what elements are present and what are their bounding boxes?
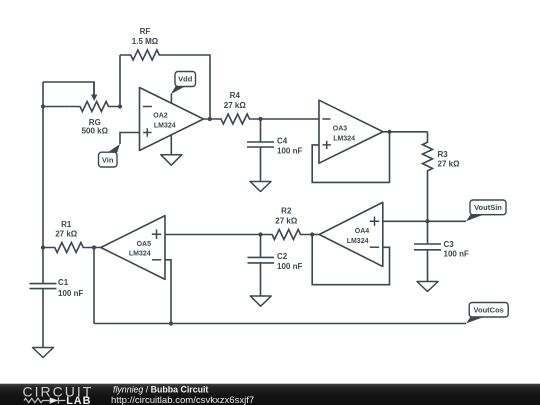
svg-text:Vin: Vin [102, 155, 114, 164]
svg-text:OA2: OA2 [153, 112, 168, 119]
svg-text:LM324: LM324 [154, 122, 176, 129]
svg-text:OA4: OA4 [355, 228, 370, 235]
svg-text:RF: RF [140, 27, 151, 36]
svg-text:http://circuitlab.com/csvkxzx6: http://circuitlab.com/csvkxzx6sxjf7 [111, 395, 254, 405]
svg-text:C4: C4 [277, 137, 288, 146]
svg-text:VoutCos: VoutCos [474, 306, 504, 315]
svg-text:LM324: LM324 [333, 135, 355, 142]
svg-text:LM324: LM324 [129, 251, 151, 258]
svg-text:27 kΩ: 27 kΩ [55, 230, 78, 239]
svg-text:100 nF: 100 nF [58, 289, 83, 298]
svg-text:flynnieg / Bubba Circuit: flynnieg / Bubba Circuit [113, 385, 208, 395]
svg-text:C3: C3 [444, 240, 455, 249]
svg-text:500 kΩ: 500 kΩ [82, 126, 109, 135]
svg-text:Vdd: Vdd [178, 75, 193, 84]
svg-text:R1: R1 [61, 220, 72, 229]
svg-text:R4: R4 [230, 91, 241, 100]
svg-text:LAB: LAB [66, 395, 91, 405]
svg-text:R3: R3 [438, 150, 449, 159]
svg-text:100 nF: 100 nF [277, 147, 302, 156]
svg-text:C2: C2 [277, 252, 288, 261]
svg-text:100 nF: 100 nF [444, 250, 469, 259]
svg-text:OA5: OA5 [137, 241, 152, 248]
svg-text:VoutSin: VoutSin [474, 203, 502, 212]
svg-text:LM324: LM324 [347, 238, 369, 245]
svg-text:100 nF: 100 nF [277, 262, 302, 271]
svg-text:OA3: OA3 [333, 126, 348, 133]
svg-text:27 kΩ: 27 kΩ [224, 101, 247, 110]
svg-text:27 kΩ: 27 kΩ [438, 159, 461, 168]
svg-text:27 kΩ: 27 kΩ [275, 217, 298, 226]
svg-text:1.5 MΩ: 1.5 MΩ [132, 37, 159, 46]
svg-text:C1: C1 [58, 278, 69, 287]
svg-text:R2: R2 [281, 207, 292, 216]
